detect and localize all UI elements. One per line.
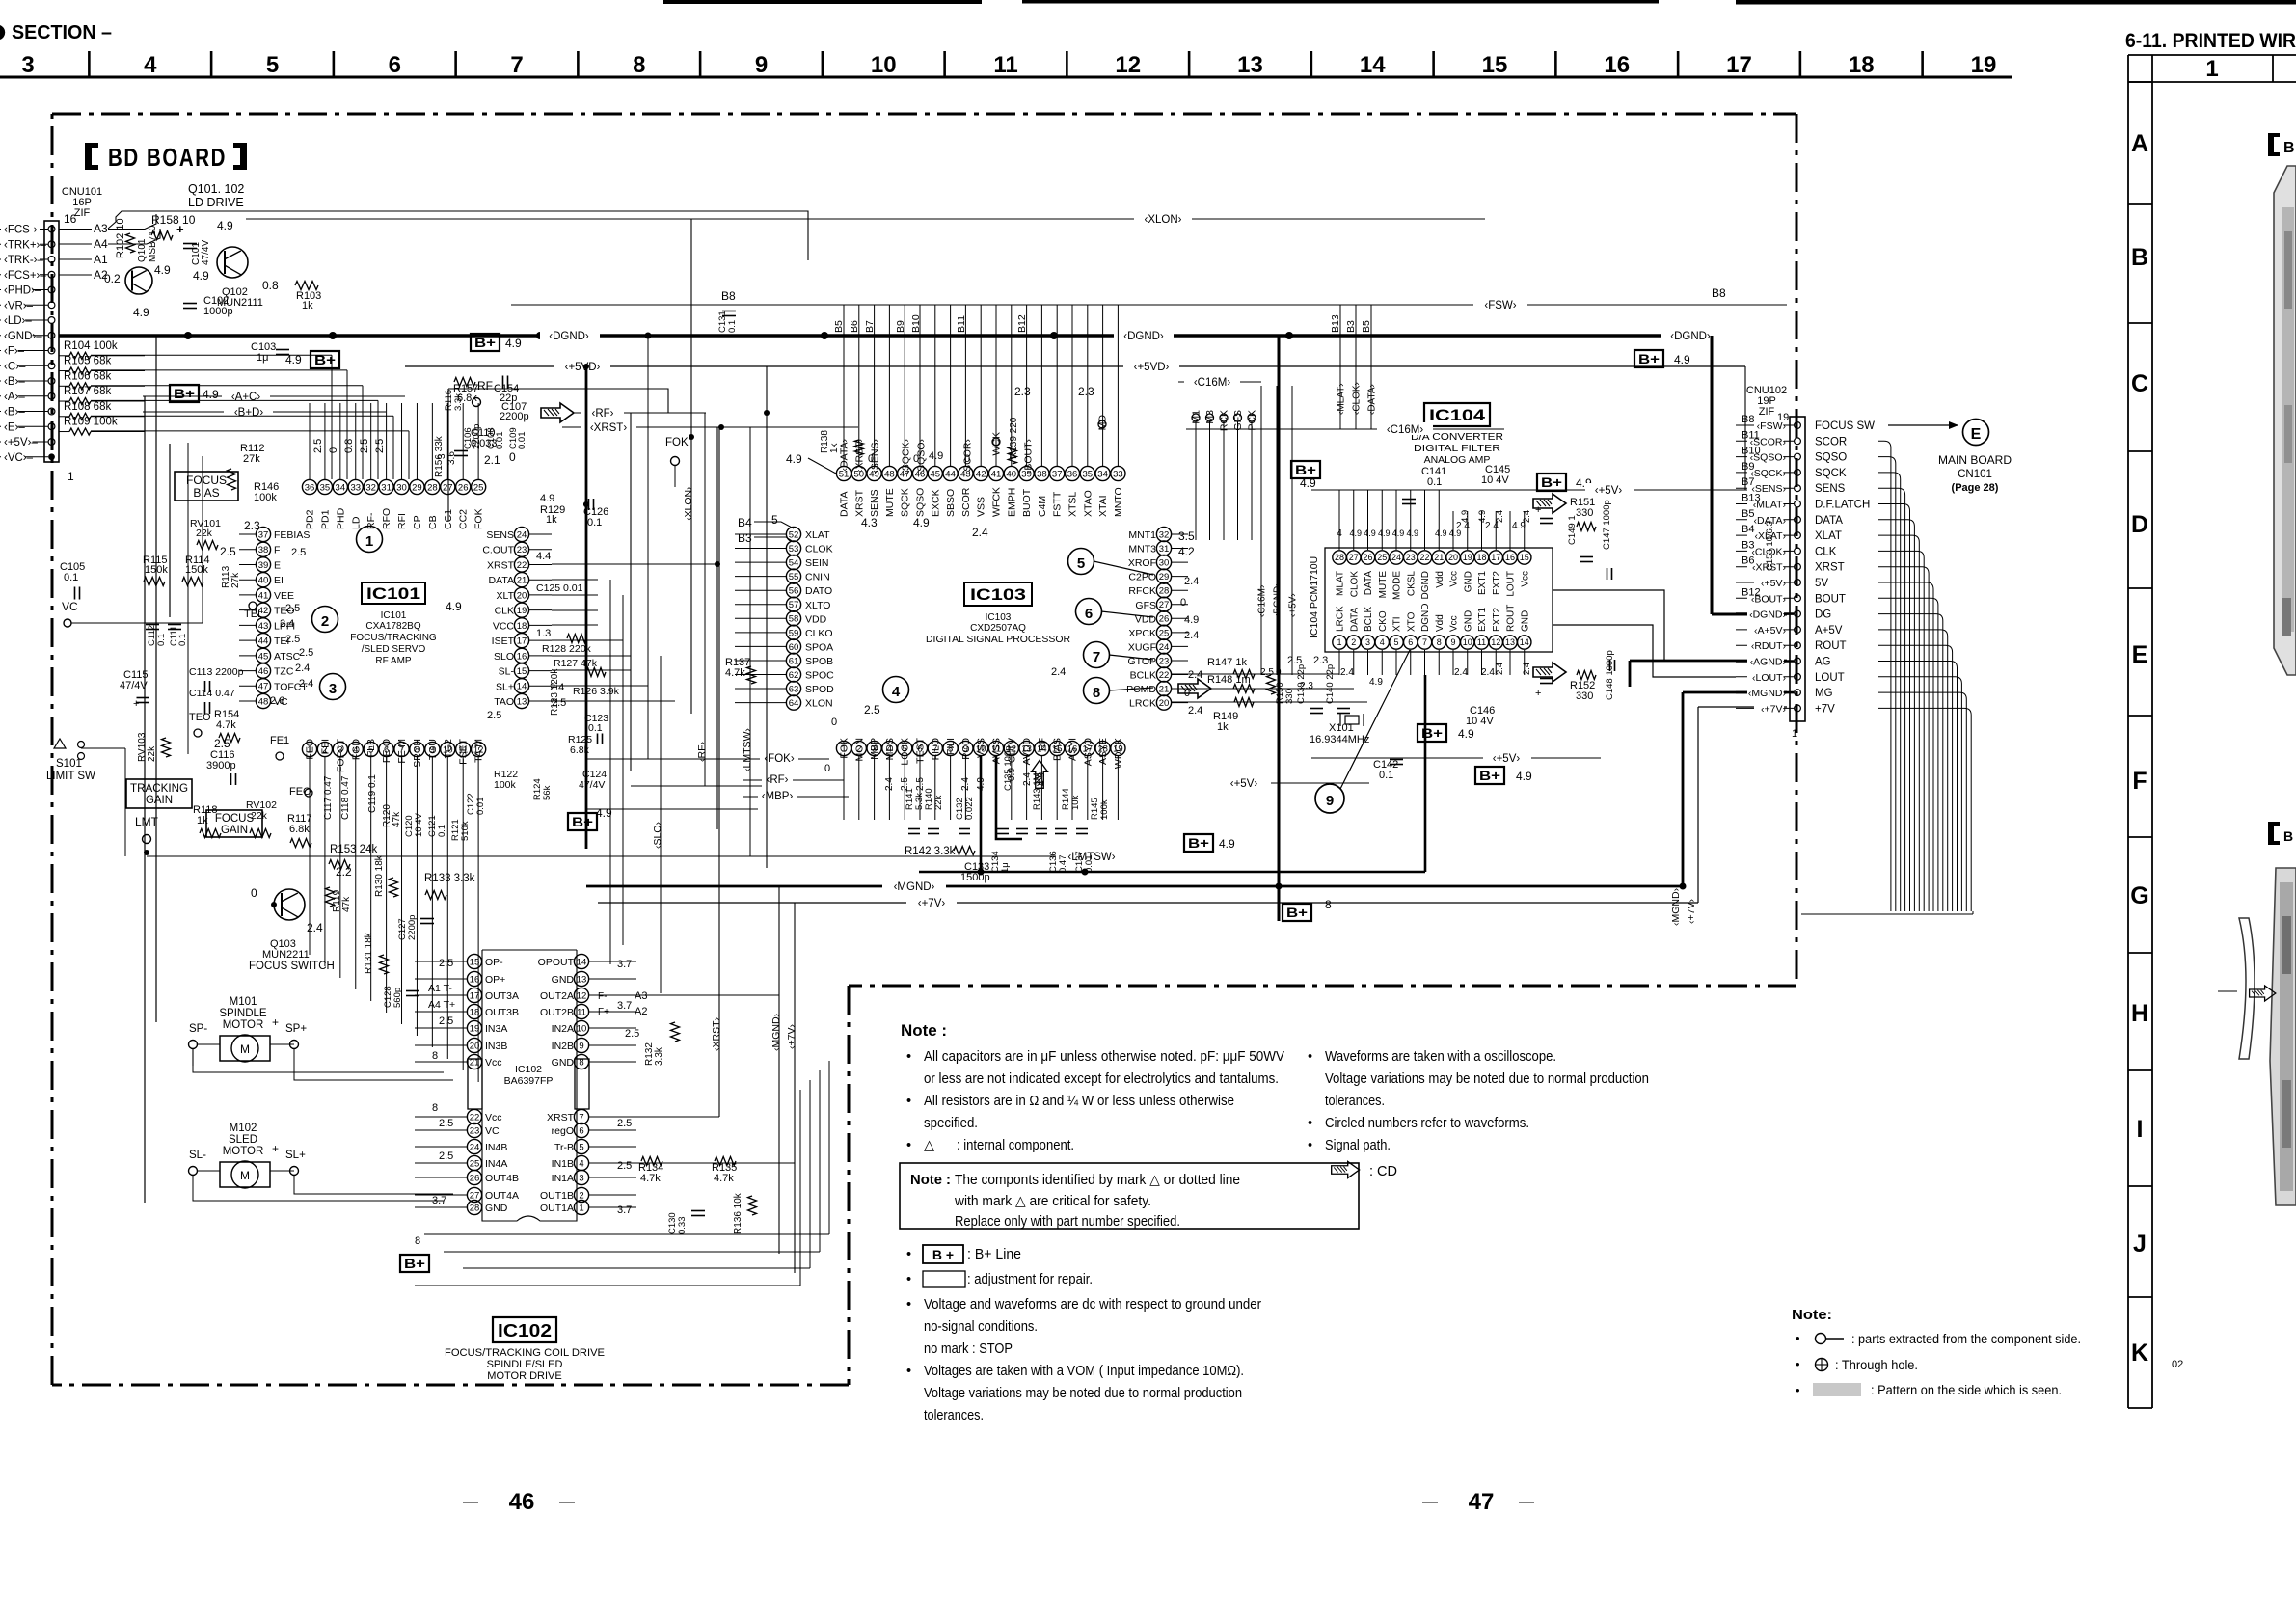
svg-text:21: 21 bbox=[1159, 684, 1170, 694]
svg-text:: internal component.: : internal component. bbox=[957, 1138, 1074, 1153]
wire bbox=[1878, 645, 1953, 911]
svg-text:C140 22p: C140 22p bbox=[1325, 664, 1336, 704]
wire bbox=[1481, 511, 1483, 550]
IC102 pin 5 bbox=[574, 1139, 588, 1153]
svg-text:Vdd: Vdd bbox=[1435, 614, 1445, 632]
svg-text:SENS: SENS bbox=[486, 529, 514, 541]
IC104 pin 18 bbox=[1474, 551, 1488, 564]
svg-text:B8: B8 bbox=[1712, 286, 1726, 300]
svg-text:IC103: IC103 bbox=[986, 612, 1012, 623]
wire bbox=[355, 403, 357, 479]
svg-text:9: 9 bbox=[755, 52, 768, 78]
svg-text:2.4: 2.4 bbox=[972, 526, 988, 539]
svg-text:/SLED SERVO: /SLED SERVO bbox=[362, 644, 426, 655]
note safety box bbox=[900, 1163, 1359, 1229]
IC103 pin 36 bbox=[1065, 466, 1079, 480]
IC103 pin 22 bbox=[1156, 667, 1171, 682]
svg-text:C118 0.47: C118 0.47 bbox=[340, 775, 351, 820]
svg-text:FOCUS: FOCUS bbox=[186, 474, 227, 487]
svg-text:‹A+C›: ‹A+C› bbox=[231, 392, 261, 403]
svg-text:33: 33 bbox=[350, 482, 361, 493]
svg-text:SL-: SL- bbox=[499, 666, 515, 678]
svg-text:R123 120k: R123 120k bbox=[550, 668, 560, 716]
svg-text:24: 24 bbox=[1391, 553, 1401, 562]
svg-text:19: 19 bbox=[1463, 553, 1472, 562]
svg-text:20: 20 bbox=[1159, 698, 1170, 709]
IC103 pin 53 bbox=[786, 541, 800, 555]
wire bbox=[1878, 662, 1958, 912]
svg-text:GAIN: GAIN bbox=[221, 825, 248, 836]
CNU102 pin A+5V bbox=[1795, 627, 1801, 634]
wire bbox=[1087, 756, 1089, 820]
svg-text:19: 19 bbox=[517, 606, 527, 616]
svg-text:‹MBP›: ‹MBP› bbox=[762, 791, 794, 802]
svg-text:24: 24 bbox=[1159, 642, 1170, 653]
IC103 pin 20 bbox=[1156, 695, 1171, 710]
svg-text:: CD: : CD bbox=[1369, 1164, 1397, 1179]
svg-text:‹+7V›: ‹+7V› bbox=[786, 1024, 797, 1049]
svg-text:FEO: FEO bbox=[305, 739, 316, 760]
svg-text:26: 26 bbox=[1159, 614, 1170, 625]
IC104 pin 10 bbox=[1461, 636, 1474, 649]
svg-text:57: 57 bbox=[789, 600, 799, 610]
grid tick bbox=[1554, 51, 1557, 77]
IC101 pin 7 bbox=[394, 742, 409, 756]
svg-text:CLK: CLK bbox=[1815, 546, 1837, 557]
svg-text:150k: 150k bbox=[145, 564, 168, 576]
long vertical 685 SLO bbox=[660, 656, 662, 993]
svg-text:‹+5V›: ‹+5V› bbox=[1761, 578, 1786, 589]
svg-text:14: 14 bbox=[577, 957, 587, 967]
svg-text:3: 3 bbox=[1365, 637, 1370, 647]
IC104 pin 21 bbox=[1432, 551, 1445, 564]
CNU102 pin MG bbox=[1795, 690, 1801, 696]
svg-text:CLOK: CLOK bbox=[1349, 571, 1360, 598]
MGND vertical to bottom bbox=[778, 886, 780, 1254]
svg-text:R104 100k: R104 100k bbox=[64, 340, 118, 352]
IC101 pin 8 bbox=[410, 742, 424, 756]
svg-text:GAIN: GAIN bbox=[146, 795, 173, 806]
svg-text:‹RDUT›: ‹RDUT› bbox=[1751, 640, 1787, 652]
svg-text:—: — bbox=[1422, 1494, 1438, 1510]
svg-text:A: A bbox=[2131, 130, 2148, 157]
svg-text:10 4V: 10 4V bbox=[1481, 474, 1509, 486]
svg-text:SL-: SL- bbox=[189, 1150, 206, 1161]
svg-text:XTO: XTO bbox=[1406, 611, 1417, 632]
wire bbox=[874, 756, 876, 820]
svg-text:A3: A3 bbox=[635, 990, 647, 1002]
IC104 pin 5 bbox=[1390, 636, 1403, 649]
wire bbox=[1878, 488, 1905, 911]
svg-text:‹+7V›: ‹+7V› bbox=[1686, 899, 1697, 924]
wire bbox=[1878, 677, 1961, 911]
wire bbox=[1878, 692, 1966, 911]
EXT electrolytics bbox=[1540, 518, 1553, 520]
svg-text:‹E›–: ‹E›– bbox=[4, 421, 25, 433]
wire 5 to RFCK bbox=[1094, 561, 1153, 575]
svg-text:Q101: Q101 bbox=[137, 238, 148, 262]
wire bbox=[401, 757, 403, 810]
svg-text:FLB: FLB bbox=[365, 739, 377, 757]
wire bbox=[446, 757, 448, 810]
svg-text:GND: GND bbox=[1463, 571, 1473, 592]
wire bbox=[1878, 567, 1929, 911]
svg-text:12: 12 bbox=[577, 990, 587, 1001]
svg-text:4.7k: 4.7k bbox=[714, 1173, 734, 1184]
wire bbox=[1011, 756, 1013, 820]
svg-text:EMPH: EMPH bbox=[1006, 488, 1017, 517]
wire bbox=[1102, 756, 1104, 820]
svg-text:10 4V: 10 4V bbox=[414, 813, 424, 837]
svg-text:4.9: 4.9 bbox=[596, 806, 612, 820]
svg-text:2.4: 2.4 bbox=[884, 777, 895, 791]
svg-text:DG: DG bbox=[1815, 609, 1831, 621]
svg-text:1: 1 bbox=[68, 470, 74, 483]
svg-text:4: 4 bbox=[579, 1158, 583, 1169]
IC101 pin 36 bbox=[302, 479, 316, 494]
svg-text:‹SQCK›: ‹SQCK› bbox=[1750, 468, 1786, 479]
svg-text:2.5: 2.5 bbox=[439, 1015, 453, 1027]
svg-text:DATA: DATA bbox=[1815, 515, 1843, 527]
wire XLON bbox=[246, 218, 1485, 220]
svg-text:‹GND›–: ‹GND›– bbox=[4, 331, 42, 342]
IC104 pin 23 bbox=[1404, 551, 1418, 564]
svg-text:IN3A: IN3A bbox=[485, 1023, 507, 1035]
svg-text:SPOB: SPOB bbox=[805, 656, 833, 667]
svg-text:MOTOR DRIVE: MOTOR DRIVE bbox=[487, 1370, 561, 1382]
svg-text:4.9: 4.9 bbox=[1460, 510, 1471, 523]
svg-text:E: E bbox=[274, 559, 281, 571]
svg-text:‹B›–: ‹B›– bbox=[4, 376, 25, 388]
svg-text:Voltage variations may be note: Voltage variations may be noted due to n… bbox=[1325, 1071, 1649, 1087]
svg-text:6: 6 bbox=[1408, 637, 1413, 647]
svg-text:10: 10 bbox=[577, 1023, 587, 1034]
svg-text:8: 8 bbox=[415, 1235, 420, 1247]
svg-text:2.3: 2.3 bbox=[244, 519, 260, 532]
IC104 pin 4 bbox=[1375, 636, 1389, 649]
svg-text:0.8: 0.8 bbox=[343, 439, 355, 453]
svg-text:‹PHD›–: ‹PHD›– bbox=[4, 285, 41, 297]
svg-text:SPOD: SPOD bbox=[805, 684, 834, 695]
index divider bbox=[2128, 715, 2152, 717]
svg-text:24: 24 bbox=[517, 529, 527, 540]
svg-text:VCC: VCC bbox=[493, 620, 515, 632]
svg-text:no mark : STOP: no mark : STOP bbox=[924, 1341, 1013, 1357]
IC104 to CNU102 wires bbox=[1553, 590, 1664, 662]
svg-text:TRACKING: TRACKING bbox=[130, 783, 188, 795]
grid ruler line bbox=[0, 76, 2012, 79]
svg-text:4.9: 4.9 bbox=[1184, 614, 1199, 626]
waveform circle 7 bbox=[1084, 642, 1110, 668]
svg-text:4.9: 4.9 bbox=[1392, 528, 1405, 538]
svg-text:1k: 1k bbox=[1217, 721, 1229, 733]
caps row under IC103 bbox=[908, 828, 920, 830]
svg-text:‹+5V›: ‹+5V› bbox=[1595, 485, 1623, 497]
CNU102 pin SQCK bbox=[1795, 470, 1801, 476]
index divider bbox=[2128, 81, 2152, 83]
IC103 pin 49 bbox=[867, 466, 881, 480]
wire bbox=[1353, 490, 1355, 550]
svg-text:27: 27 bbox=[1349, 553, 1359, 562]
svg-text:: Pattern on the side which is: : Pattern on the side which is seen. bbox=[1871, 1383, 2062, 1397]
CNU101 pin TRK+ bbox=[48, 241, 55, 248]
svg-text:SL+: SL+ bbox=[285, 1150, 306, 1161]
svg-text:•: • bbox=[1308, 1138, 1312, 1153]
IC101 pin 23 bbox=[514, 542, 528, 556]
IC103 pin 12 bbox=[1004, 741, 1018, 755]
svg-text:‹+5V›–: ‹+5V›– bbox=[4, 437, 38, 448]
wire XRST bbox=[562, 426, 858, 428]
svg-text:XRST: XRST bbox=[547, 1112, 575, 1123]
svg-text:MG: MG bbox=[1815, 688, 1833, 699]
svg-text:R128 220k: R128 220k bbox=[542, 643, 592, 655]
IC102 pin 25 bbox=[467, 1155, 481, 1170]
svg-text:47: 47 bbox=[258, 682, 269, 692]
svg-text:21: 21 bbox=[1434, 553, 1444, 562]
svg-text:XLON: XLON bbox=[805, 698, 833, 710]
svg-text:A4: A4 bbox=[94, 237, 108, 251]
svg-text:•: • bbox=[1796, 1331, 1800, 1345]
svg-text:•: • bbox=[906, 1094, 911, 1109]
svg-text:‹DATA›: ‹DATA› bbox=[1367, 384, 1378, 415]
svg-text:2.4: 2.4 bbox=[1340, 667, 1354, 678]
svg-text:XTAO: XTAO bbox=[1082, 490, 1094, 517]
svg-text:‹MGND›: ‹MGND› bbox=[894, 881, 935, 893]
svg-text:GND: GND bbox=[485, 1203, 508, 1214]
svg-text:MODE: MODE bbox=[1392, 571, 1403, 600]
CNU101 pin VR bbox=[48, 302, 55, 309]
svg-text:IN4A: IN4A bbox=[485, 1158, 507, 1170]
IC101 pin 3 bbox=[333, 742, 347, 756]
waveform circle 1 bbox=[357, 527, 383, 553]
CNU101 pin TRK- bbox=[48, 257, 55, 263]
svg-text:MAIN BOARD: MAIN BOARD bbox=[1938, 455, 2012, 467]
svg-text:GND: GND bbox=[552, 1057, 575, 1069]
svg-text:B+: B+ bbox=[1188, 835, 1209, 851]
svg-text:1k: 1k bbox=[302, 300, 313, 311]
svg-text:5: 5 bbox=[1077, 555, 1085, 572]
wire bbox=[1410, 650, 1412, 675]
svg-text:•: • bbox=[906, 1247, 911, 1262]
svg-text:TEO: TEO bbox=[189, 712, 211, 723]
svg-text:F-: F- bbox=[598, 991, 607, 1002]
svg-text:LMT: LMT bbox=[135, 815, 159, 828]
IC101 pin 20 bbox=[514, 587, 528, 602]
IC101 pin 37 bbox=[256, 527, 270, 541]
wire bbox=[1878, 520, 1914, 911]
wire bbox=[1452, 511, 1454, 550]
svg-text:A3: A3 bbox=[94, 222, 108, 235]
svg-text:OUT1A: OUT1A bbox=[540, 1203, 574, 1214]
svg-text:54: 54 bbox=[789, 558, 799, 569]
svg-text:‹VR›–: ‹VR›– bbox=[4, 300, 34, 311]
wire corner +5VD right bbox=[1744, 366, 1746, 490]
svg-text:C149 1: C149 1 bbox=[1567, 515, 1578, 545]
wire bbox=[416, 403, 418, 479]
waveform circle 4 bbox=[883, 677, 909, 703]
svg-text:47/4V: 47/4V bbox=[201, 240, 211, 265]
svg-text:38: 38 bbox=[258, 545, 269, 555]
svg-text:2.5: 2.5 bbox=[439, 1150, 453, 1162]
CNU102 pin CLK bbox=[1795, 548, 1801, 555]
IC103 pin 32 bbox=[1156, 527, 1171, 541]
svg-text:CXD2507AQ: CXD2507AQ bbox=[970, 623, 1026, 634]
svg-text:1: 1 bbox=[2205, 56, 2218, 82]
wire bbox=[1495, 650, 1497, 675]
IC104 pin 22 bbox=[1418, 551, 1431, 564]
IC103 pin 58 bbox=[786, 611, 800, 626]
wire bbox=[1011, 305, 1013, 466]
B+ mid left bbox=[568, 813, 597, 830]
svg-text:19: 19 bbox=[1971, 52, 1997, 78]
svg-text:VC: VC bbox=[62, 600, 78, 613]
IC102 pin 1 bbox=[574, 1200, 588, 1214]
svg-text:F+: F+ bbox=[598, 1007, 609, 1017]
svg-text:B3: B3 bbox=[738, 531, 752, 545]
wire bbox=[950, 305, 952, 466]
wire bbox=[1878, 582, 1933, 911]
connector CNU101 bbox=[44, 221, 59, 462]
svg-text:XLT: XLT bbox=[497, 590, 515, 602]
transistor Q103 bbox=[274, 889, 305, 920]
IC102 pin 11 bbox=[574, 1004, 588, 1018]
svg-text:ZIF: ZIF bbox=[1759, 406, 1775, 418]
svg-text:28: 28 bbox=[1335, 553, 1344, 562]
svg-text:0: 0 bbox=[509, 450, 516, 464]
svg-text:IC101: IC101 bbox=[381, 610, 407, 621]
note signal path arrow bbox=[1332, 1162, 1360, 1178]
svg-text:2: 2 bbox=[1351, 637, 1356, 647]
svg-text:C147 1000p: C147 1000p bbox=[1602, 500, 1612, 550]
svg-text:B+: B+ bbox=[572, 814, 593, 829]
wire bbox=[1102, 305, 1104, 466]
svg-text:B12: B12 bbox=[1016, 314, 1028, 333]
wire bbox=[1026, 305, 1028, 466]
svg-text:—: — bbox=[463, 1494, 478, 1510]
IC103 pin 6 bbox=[912, 741, 927, 755]
svg-text:31: 31 bbox=[381, 482, 392, 493]
svg-text:FSTT: FSTT bbox=[1052, 491, 1064, 517]
IC103 pin 54 bbox=[786, 555, 800, 570]
svg-text:3.3k: 3.3k bbox=[654, 1046, 664, 1066]
svg-text:9: 9 bbox=[1326, 793, 1334, 809]
svg-text:E: E bbox=[1971, 426, 1982, 443]
wire bbox=[888, 305, 890, 466]
svg-text:Vcc: Vcc bbox=[1449, 571, 1460, 587]
svg-text:R147 1k: R147 1k bbox=[1207, 657, 1247, 668]
IC103 pin 33 bbox=[1111, 466, 1125, 480]
svg-text:SENS: SENS bbox=[869, 489, 880, 517]
svg-text:tolerances.: tolerances. bbox=[924, 1408, 984, 1423]
svg-text:OP-: OP- bbox=[485, 957, 503, 968]
IC103 pin 8 bbox=[943, 741, 958, 755]
svg-text:M101: M101 bbox=[230, 996, 257, 1008]
svg-text:9: 9 bbox=[579, 1041, 583, 1051]
index divider bbox=[2128, 952, 2152, 954]
svg-text:0.1: 0.1 bbox=[588, 722, 603, 734]
wire bbox=[1338, 490, 1340, 550]
grid tick bbox=[1066, 51, 1068, 77]
wire bbox=[1878, 504, 1910, 912]
svg-text:4.9: 4.9 bbox=[1435, 528, 1447, 538]
wire A2 bbox=[59, 274, 92, 276]
CNU102 pin FOCUS SW bbox=[1795, 422, 1801, 429]
svg-text:20: 20 bbox=[1448, 553, 1458, 562]
svg-text:B9: B9 bbox=[895, 320, 906, 333]
svg-text:DATA: DATA bbox=[489, 575, 514, 586]
IC103 pin 16 bbox=[1065, 741, 1079, 755]
wire bbox=[1481, 650, 1483, 675]
wire FSW bbox=[511, 304, 1787, 306]
CNU102 pin AG bbox=[1795, 658, 1801, 664]
IC102 pin 9 bbox=[574, 1038, 588, 1052]
svg-text:‹AGND›: ‹AGND› bbox=[1750, 657, 1787, 668]
svg-text:22k: 22k bbox=[196, 528, 213, 539]
TRACKING GAIN box bbox=[126, 779, 192, 808]
svg-text:‹CLOK›: ‹CLOK› bbox=[1352, 382, 1363, 415]
svg-text:A+5V: A+5V bbox=[1815, 625, 1843, 636]
IC102 pin 26 bbox=[467, 1170, 481, 1184]
svg-text:‹BOUT›: ‹BOUT› bbox=[1023, 439, 1035, 474]
svg-text:PD1: PD1 bbox=[319, 509, 331, 529]
wire bbox=[919, 305, 921, 466]
svg-text:: adjustment for repair.: : adjustment for repair. bbox=[967, 1272, 1093, 1287]
IC103 pin 35 bbox=[1080, 466, 1094, 480]
FOCUS BIAS box bbox=[175, 472, 238, 501]
svg-text:B11: B11 bbox=[1742, 429, 1760, 441]
svg-text:2.4: 2.4 bbox=[1184, 630, 1199, 641]
svg-text:11: 11 bbox=[577, 1007, 586, 1017]
CNU102 pin D.F.LATCH bbox=[1795, 501, 1801, 507]
svg-text:Note :: Note : bbox=[910, 1173, 951, 1188]
svg-text:MUTE: MUTE bbox=[1378, 571, 1389, 599]
svg-text:32: 32 bbox=[1159, 529, 1170, 540]
svg-text:D: D bbox=[2131, 511, 2148, 538]
svg-text:58: 58 bbox=[789, 614, 799, 625]
svg-text:B4: B4 bbox=[1742, 524, 1754, 535]
IC101 to IC102 verticals bbox=[309, 810, 311, 955]
svg-text:CKSL: CKSL bbox=[1406, 571, 1417, 597]
svg-text:IC102: IC102 bbox=[498, 1321, 552, 1340]
grid tick bbox=[454, 51, 457, 77]
svg-text:‹DGND›: ‹DGND› bbox=[1670, 331, 1711, 342]
svg-text:PD2: PD2 bbox=[305, 509, 316, 529]
IC101 pin 24 bbox=[514, 527, 528, 541]
svg-text:30: 30 bbox=[1159, 558, 1170, 569]
svg-text:‹+5V›: ‹+5V› bbox=[1493, 753, 1521, 765]
IC103 pin 19 bbox=[1111, 741, 1125, 755]
svg-text:0: 0 bbox=[964, 453, 970, 465]
B+ 4.9 left bbox=[170, 385, 199, 402]
svg-text:56: 56 bbox=[789, 586, 799, 597]
svg-text:52: 52 bbox=[789, 529, 799, 540]
svg-text:FOCUS SWITCH: FOCUS SWITCH bbox=[249, 961, 335, 972]
CNU101 pin FCS- bbox=[48, 226, 55, 232]
svg-text:B: B bbox=[2131, 244, 2148, 271]
wire bbox=[874, 305, 876, 466]
IC101 pin 46 bbox=[256, 663, 270, 678]
IC104 pin 16 bbox=[1503, 551, 1517, 564]
B+ below IC102 bbox=[400, 1255, 429, 1272]
wire bbox=[324, 757, 326, 810]
svg-text:2.5: 2.5 bbox=[299, 647, 313, 659]
svg-text:29: 29 bbox=[412, 482, 422, 493]
A+C label bbox=[220, 390, 272, 402]
IC101 pin 22 bbox=[514, 557, 528, 572]
wire bbox=[1878, 630, 1948, 911]
svg-text:B3: B3 bbox=[1742, 539, 1754, 551]
svg-text:36: 36 bbox=[305, 482, 315, 493]
